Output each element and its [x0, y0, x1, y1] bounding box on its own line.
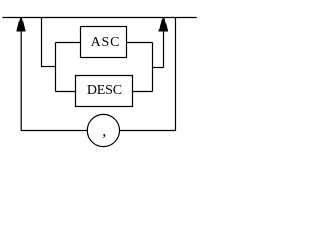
wire left option ladder vertical: [55, 43, 57, 92]
wire loop-back left: arrow1 stem down to bottom rail and right to comma circle: [21, 30, 87, 131]
box DESC keyword: [76, 76, 133, 107]
wire DESC exit: [133, 91, 153, 93]
arrow up-arrowhead right (options rejoin main line): [159, 18, 168, 32]
wire ASC entrance: [56, 42, 81, 44]
wire branch entry: down from main line, elbow right into option ladder: [42, 18, 56, 67]
box ASC keyword: [81, 27, 127, 58]
wire ASC exit: [127, 42, 153, 44]
wire DESC entrance: [56, 91, 76, 93]
arrow up-arrowhead left (loop rejoins main line): [16, 18, 25, 32]
wire arrow2 stem: [163, 30, 165, 68]
circle comma separator: [87, 114, 119, 146]
svg-text:ASC: ASC: [91, 35, 121, 50]
wire junction to arrow2 stem: [153, 67, 164, 69]
wire bottom rail right of circle up to main line: [120, 18, 176, 131]
wire main top line: [2, 17, 196, 19]
svg-text:DESC: DESC: [87, 83, 122, 98]
wire right option ladder vertical: [152, 43, 154, 92]
svg-text:,: ,: [102, 123, 106, 140]
